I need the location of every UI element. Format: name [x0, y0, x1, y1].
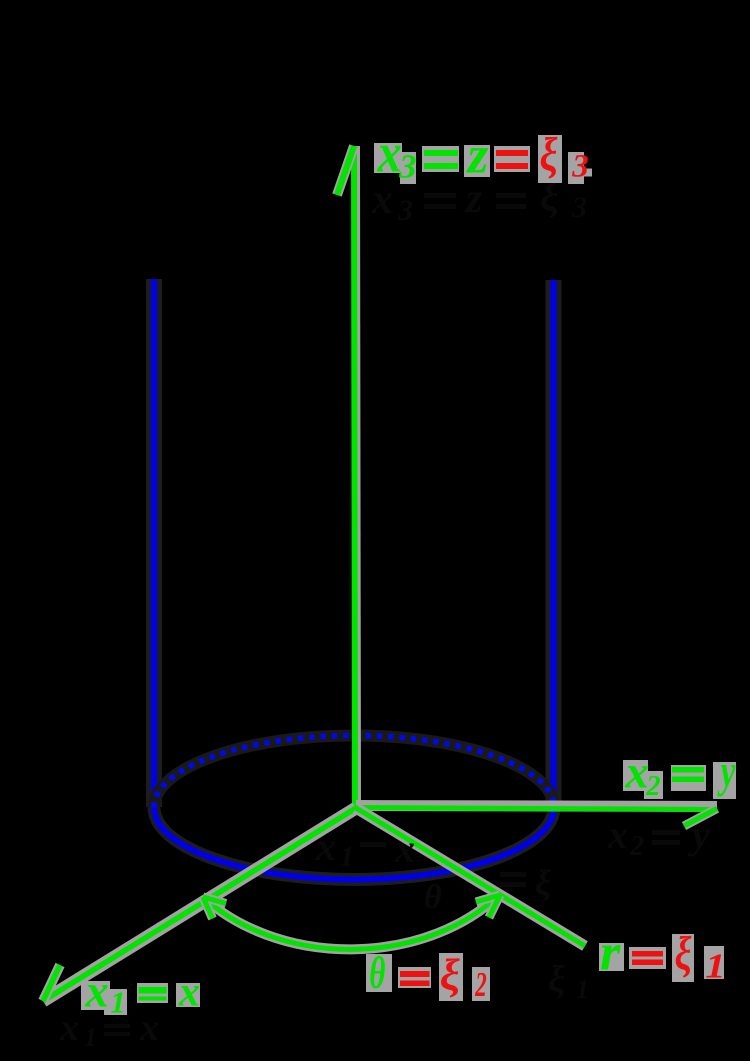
svg-text:3: 3	[571, 191, 587, 224]
svg-text:z: z	[466, 126, 489, 185]
r axis	[356, 808, 585, 946]
cylinder base ellipse front	[154, 808, 554, 880]
svg-text:x: x	[139, 1007, 159, 1049]
ghost remnants near origin	[315, 824, 551, 916]
svg-text:ξ: ξ	[548, 959, 565, 1001]
ghost remnant under x2=y label	[607, 812, 710, 862]
label x2 = y (right)	[623, 745, 736, 802]
svg-text:1: 1	[340, 842, 354, 873]
svg-text:3: 3	[397, 194, 413, 227]
svg-text:2: 2	[645, 770, 660, 802]
svg-text:θ: θ	[369, 948, 385, 998]
svg-text:ξ: ξ	[440, 949, 460, 999]
svg-text:1: 1	[705, 947, 725, 986]
svg-text:x: x	[178, 968, 200, 1015]
svg-text:ξ: ξ	[540, 129, 558, 181]
z axis (x3)	[354, 146, 358, 808]
svg-text:3: 3	[398, 148, 416, 186]
theta arc	[203, 895, 499, 949]
y axis arrowhead	[684, 809, 717, 827]
theta arc right arrowhead	[476, 895, 500, 918]
svg-text:1: 1	[110, 985, 125, 1019]
label theta = xi2 (bottom middle)	[366, 948, 490, 1004]
svg-text:y: y	[688, 812, 710, 857]
z axis arrowhead	[337, 146, 354, 195]
cylinder right edge	[546, 280, 562, 807]
svg-text:r: r	[600, 924, 621, 982]
svg-text:x: x	[85, 966, 109, 1018]
svg-text:x: x	[394, 826, 415, 871]
cylinder left edge	[146, 279, 162, 807]
svg-text:x: x	[59, 1007, 79, 1049]
svg-text:3: 3	[571, 149, 588, 185]
ghost remnant under x1=x label	[59, 1007, 159, 1052]
label x3 = z = xi3 (top)	[374, 124, 592, 186]
x1 axis arrowhead	[43, 965, 60, 1001]
theta arc left arrowhead	[203, 897, 226, 919]
svg-text:x: x	[377, 124, 402, 185]
svg-text:2: 2	[475, 966, 487, 1004]
svg-text:x: x	[315, 824, 336, 869]
ghost remnant under top label	[371, 174, 587, 227]
svg-text:θ: θ	[424, 879, 442, 916]
svg-text:ξ: ξ	[535, 863, 551, 903]
ghost remnant near r label	[548, 959, 589, 1004]
svg-text:x: x	[625, 747, 649, 799]
cylinder base ellipse back (dotted)	[154, 736, 554, 808]
x axis (x1)	[43, 808, 356, 1001]
svg-text:ξ: ξ	[675, 928, 692, 980]
label r = xi1 (bottom right)	[599, 924, 726, 986]
svg-text:x: x	[607, 812, 628, 857]
svg-text:1: 1	[576, 975, 589, 1004]
y axis (x2)	[356, 806, 717, 810]
svg-text:2: 2	[629, 831, 644, 862]
svg-text:1: 1	[84, 1023, 97, 1052]
label x1 = x (bottom left)	[81, 966, 200, 1020]
